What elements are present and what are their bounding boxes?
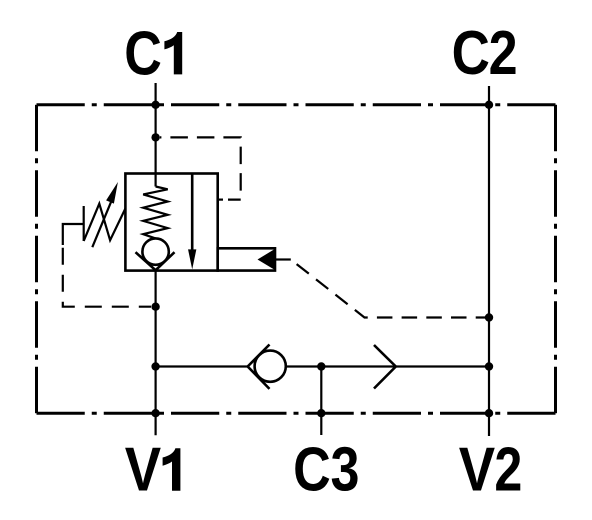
- dashed pilot line left (drain to V1 line): [63, 245, 151, 307]
- check seat V (inside valve): [136, 252, 175, 270]
- svg-text:2: 2: [489, 19, 518, 88]
- dashed pilot line top (C1 line to valve right stub): [160, 137, 241, 199]
- junction dot C3 x border: [317, 409, 325, 417]
- junction dot C1 x left pilot: [151, 303, 159, 311]
- port label C3: [293, 435, 359, 504]
- svg-text:C: C: [452, 19, 490, 88]
- dashed pilot line right (to V2 line): [291, 260, 489, 318]
- junction dot V2 x right pilot: [485, 313, 493, 321]
- junction dot V1 x border: [151, 409, 159, 417]
- junction dot V2 x flow line: [485, 362, 493, 370]
- check valve C/V2 on flow line: seat: [248, 345, 270, 389]
- flow arrow inside valve (downward): [188, 174, 196, 270]
- counterbalance valve U1 body box: [125, 174, 217, 271]
- port label V1: [125, 435, 181, 504]
- pilot extension rectangle (right of valve): [218, 248, 275, 270]
- stub wire spring to pilot: [63, 224, 84, 245]
- junction dot C3 x flow line: [317, 362, 325, 370]
- svg-text:3: 3: [331, 435, 360, 504]
- port label V2: [459, 434, 523, 504]
- spring (inside valve, on C1 line): [143, 187, 168, 239]
- port label C1: [124, 19, 182, 88]
- wire flow line left segment (V1 to check valve seat): [156, 365, 248, 367]
- junction dot C1 x border: [151, 101, 159, 109]
- junction dot C1 x top pilot: [151, 133, 159, 141]
- valve body boundary (dash-dot envelope): [37, 105, 556, 413]
- solid stub on valve right for top pilot: [218, 199, 223, 201]
- wire flow line right segment (check valve to V2): [286, 365, 489, 367]
- wire C2/V2 vertical: [488, 86, 490, 436]
- junction dot V1 x flow line: [151, 362, 159, 370]
- port label C2: [452, 19, 518, 88]
- junction dot V2 x border: [485, 409, 493, 417]
- pilot arrow triangle (filled, pointing left): [258, 249, 276, 270]
- wire V1 vertical (valve seat apex to V1 port): [155, 271, 157, 436]
- svg-text:2: 2: [494, 434, 522, 503]
- adjustable spring symbol (left of valve): [84, 204, 126, 241]
- svg-text:C: C: [293, 435, 331, 504]
- wire C3 vertical: [320, 367, 322, 436]
- adjustability arrow through spring: [92, 182, 118, 247]
- svg-text:V: V: [125, 435, 161, 504]
- solid pilot stub right of triangle: [275, 258, 291, 260]
- wire C1 vertical (C1 port to valve spring): [155, 83, 157, 187]
- svg-text:C: C: [124, 19, 162, 88]
- svg-text:V: V: [459, 435, 495, 504]
- flow direction chevron (pointing right): [374, 345, 396, 389]
- check ball circle (inside valve): [142, 238, 168, 264]
- junction dot C2 x border: [485, 101, 493, 109]
- check valve ball circle on flow line: [255, 351, 286, 382]
